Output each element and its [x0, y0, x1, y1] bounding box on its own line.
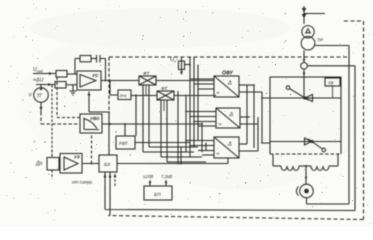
vertical wire x109 (frame/BZ top) — [108, 57, 110, 112]
ground — [70, 85, 77, 95]
resistor R1 — [56, 71, 67, 78]
block RVT — [116, 136, 135, 149]
ladder input stubs box3 — [186, 141, 214, 156]
svg-text:7,2кВ: 7,2кВ — [161, 174, 172, 179]
block bottom terminals — [273, 154, 338, 166]
wire TG to UVO (dashed) — [41, 112, 80, 124]
wire x136 to RVT top — [135, 96, 137, 137]
wire BZ pin 2 to frame bottom — [109, 172, 111, 216]
svg-text:Δ: Δ — [229, 112, 234, 118]
wire FT2 bottom pins — [161, 100, 202, 157]
wire vertical x110 to RCH — [110, 81, 118, 96]
wire dropper x52 to Dp — [51, 85, 53, 157]
dashed frame (regulator cabinet) — [109, 56, 349, 58]
svg-text:≈: ≈ — [217, 152, 220, 158]
capacitor C1 — [97, 55, 101, 63]
svg-text:УВ: УВ — [328, 81, 334, 86]
tachogenerator TG — [34, 88, 49, 103]
svg-text:≈: ≈ — [219, 122, 222, 128]
wire BZ output — [117, 163, 228, 165]
wire vertical to UVO bottom — [91, 134, 93, 164]
smoothing reactor L2 — [311, 166, 329, 170]
wire FT1 output — [156, 80, 214, 82]
wire R2 to opamp — [66, 84, 77, 86]
wire TR down — [303, 50, 305, 62]
feedback resistor R3 — [75, 59, 80, 75]
function block UVO (speed limit unit) — [80, 114, 102, 133]
wires into thyristor block — [262, 98, 270, 143]
wire RVT top pin — [124, 124, 126, 136]
svg-text:РЧ: РЧ — [120, 94, 127, 99]
sync arrows into BZ bottom — [114, 174, 116, 186]
wire TG down with arrow — [40, 102, 42, 112]
thyristor VS1 — [270, 97, 341, 99]
block UV — [325, 78, 340, 86]
sensor Dp box — [47, 158, 59, 171]
ladder input stubs box1 — [190, 79, 214, 89]
wire TR secondary to right — [315, 45, 349, 47]
svg-text:Δ: Δ — [227, 81, 232, 87]
smoothing reactor L1 — [273, 165, 281, 167]
svg-text:≈: ≈ — [217, 91, 220, 97]
svg-text:БП: БП — [154, 192, 161, 198]
wire arrow into opamp bottom — [88, 92, 90, 113]
current transformer CT — [301, 63, 308, 70]
wire FT1 bottom pins — [143, 85, 194, 152]
wire RCH to FT2 — [131, 95, 157, 97]
svg-text:от синхр.: от синхр. — [72, 180, 93, 185]
wire R1 to opamp — [67, 73, 77, 75]
wire U2 output — [82, 163, 99, 165]
svg-text:УС: УС — [92, 73, 99, 78]
pulse former box A1 — [214, 76, 239, 97]
thyristor VS2 — [270, 141, 341, 143]
wire +dU input with arrow — [36, 84, 55, 86]
wire motor return — [307, 46, 350, 205]
supply arrows (mains) — [303, 6, 305, 24]
fuse F1 — [181, 57, 183, 74]
wire FT2 output — [174, 95, 216, 97]
wire UVO output bus — [102, 123, 202, 125]
resistor R2 — [55, 82, 66, 89]
output wires of pulse formers — [239, 84, 254, 86]
junction dots ladder — [189, 80, 191, 82]
svg-text:УВО: УВО — [90, 116, 100, 121]
op-amp U2 (threshold) — [60, 154, 82, 174]
thyristor converter block outline — [270, 77, 341, 154]
wire dropper x57 to UVO — [57, 77, 80, 118]
svg-text:ТР: ТР — [317, 38, 324, 44]
svg-text:Дп: Дп — [35, 161, 43, 167]
outer dashed frame — [108, 21, 364, 220]
svg-text:УЗ: УЗ — [74, 155, 80, 160]
pulse transformer FT1 — [139, 76, 156, 85]
ladder vertical wires — [177, 91, 179, 164]
transformer TR — [302, 26, 314, 38]
pulse former box A2 — [216, 108, 240, 128]
block RCH — [118, 90, 131, 100]
pulse transformer FT2 — [157, 91, 174, 100]
motor M — [300, 184, 314, 198]
pulse former box A3 — [214, 137, 239, 158]
wire x181 up — [180, 147, 182, 164]
svg-text:Δ: Δ — [227, 142, 232, 148]
output column verticals — [247, 85, 262, 151]
svg-text:±15В: ±15В — [143, 174, 153, 179]
wire opamp output — [101, 80, 139, 82]
power supply BP — [144, 186, 172, 200]
op-amp U1 (speed regulator) — [77, 71, 101, 90]
ladder input stubs box2 — [186, 112, 216, 127]
svg-text:БЗ: БЗ — [104, 162, 110, 168]
svg-text:Uс: Uс — [170, 57, 176, 63]
wire fuse tap — [185, 64, 191, 66]
svg-text:+ΔU: +ΔU — [33, 78, 44, 84]
wire RVT output — [135, 142, 190, 144]
wire supply into block — [303, 77, 305, 98]
wire to motor — [305, 166, 307, 184]
wire Uzad input with arrow — [33, 73, 56, 75]
block BZ (pulse blocking) — [99, 155, 117, 172]
wire sync tap loop — [105, 66, 355, 211]
wire box3 bottom pin — [227, 158, 229, 164]
svg-text:РВТ: РВТ — [119, 141, 129, 146]
power arrows — [150, 181, 166, 186]
